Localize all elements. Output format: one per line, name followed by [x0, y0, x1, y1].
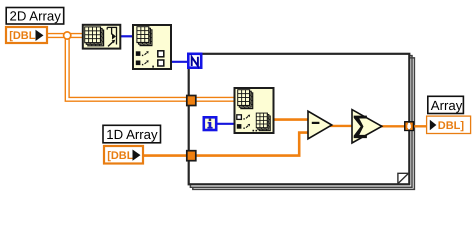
wire Index Array to N terminal (blue) [171, 61, 188, 63]
function Array Size U1 [83, 25, 121, 49]
wire Index Array output row to subtract upper input [273, 118, 309, 121]
function Index Array U3 (in loop) [235, 88, 274, 133]
for loop dog-ear corner [398, 173, 409, 183]
wire 2D array branch down to loop tunnel (double orange) [65, 37, 235, 102]
wire 1D array control to loop tunnel (orange) [142, 154, 188, 157]
control terminal 2D Array [DBL] [6, 27, 47, 43]
size caliper glyph [107, 27, 116, 47]
indicator terminal Array [DBL] [427, 116, 471, 133]
wire junction on 2D array wire [64, 32, 71, 39]
index row 1 (unwired) [237, 115, 250, 120]
subtract function [308, 111, 332, 139]
wire 2D array control to Array Size (double orange) [46, 34, 83, 38]
sigma add-array-elements function [352, 110, 382, 143]
array grid glyph top-left [237, 89, 253, 109]
output squares [158, 51, 164, 57]
tunnel 1D array (left border) [187, 151, 196, 161]
label 2D Array [6, 8, 64, 25]
svg-text:2D Array: 2D Array [10, 9, 62, 24]
index row 2 [136, 60, 149, 65]
array grid glyph [84, 26, 104, 46]
output tunnel (auto-indexing) [405, 122, 413, 130]
wire output tunnel to Array indicator [413, 125, 428, 127]
N terminal of for loop [188, 54, 201, 68]
svg-text:[DBL: [DBL [9, 30, 36, 42]
label 1D Array [103, 125, 161, 143]
index row 1 [136, 51, 149, 56]
svg-text:1D Array: 1D Array [106, 127, 158, 142]
small n marks [253, 130, 255, 132]
function Index Array U2 [133, 25, 171, 69]
i iteration terminal [204, 117, 216, 130]
wire 1D array tunnel to subtract lower input [196, 133, 309, 156]
tunnel 2D array (left border) [187, 96, 196, 106]
control terminal 1D Array [DBL] [104, 146, 143, 164]
wire Array Size to Index Array (blue) [120, 35, 134, 37]
index row 2 (wired to i) [237, 124, 250, 129]
svg-text:[DBL: [DBL [107, 150, 134, 162]
array grid glyph [136, 26, 152, 46]
for loop main border [189, 54, 410, 185]
label Array [428, 96, 464, 113]
wire sigma to output tunnel [380, 125, 405, 127]
wire subtract to sigma [330, 125, 353, 127]
for loop stack line A [190, 56, 412, 188]
for loop stack line B [193, 58, 415, 190]
sub-array grid glyph bottom-right [256, 113, 271, 132]
wire i terminal to Index Array in loop (blue) [216, 123, 235, 125]
svg-text:DBL]: DBL] [438, 120, 465, 132]
svg-text:Array: Array [431, 98, 463, 113]
